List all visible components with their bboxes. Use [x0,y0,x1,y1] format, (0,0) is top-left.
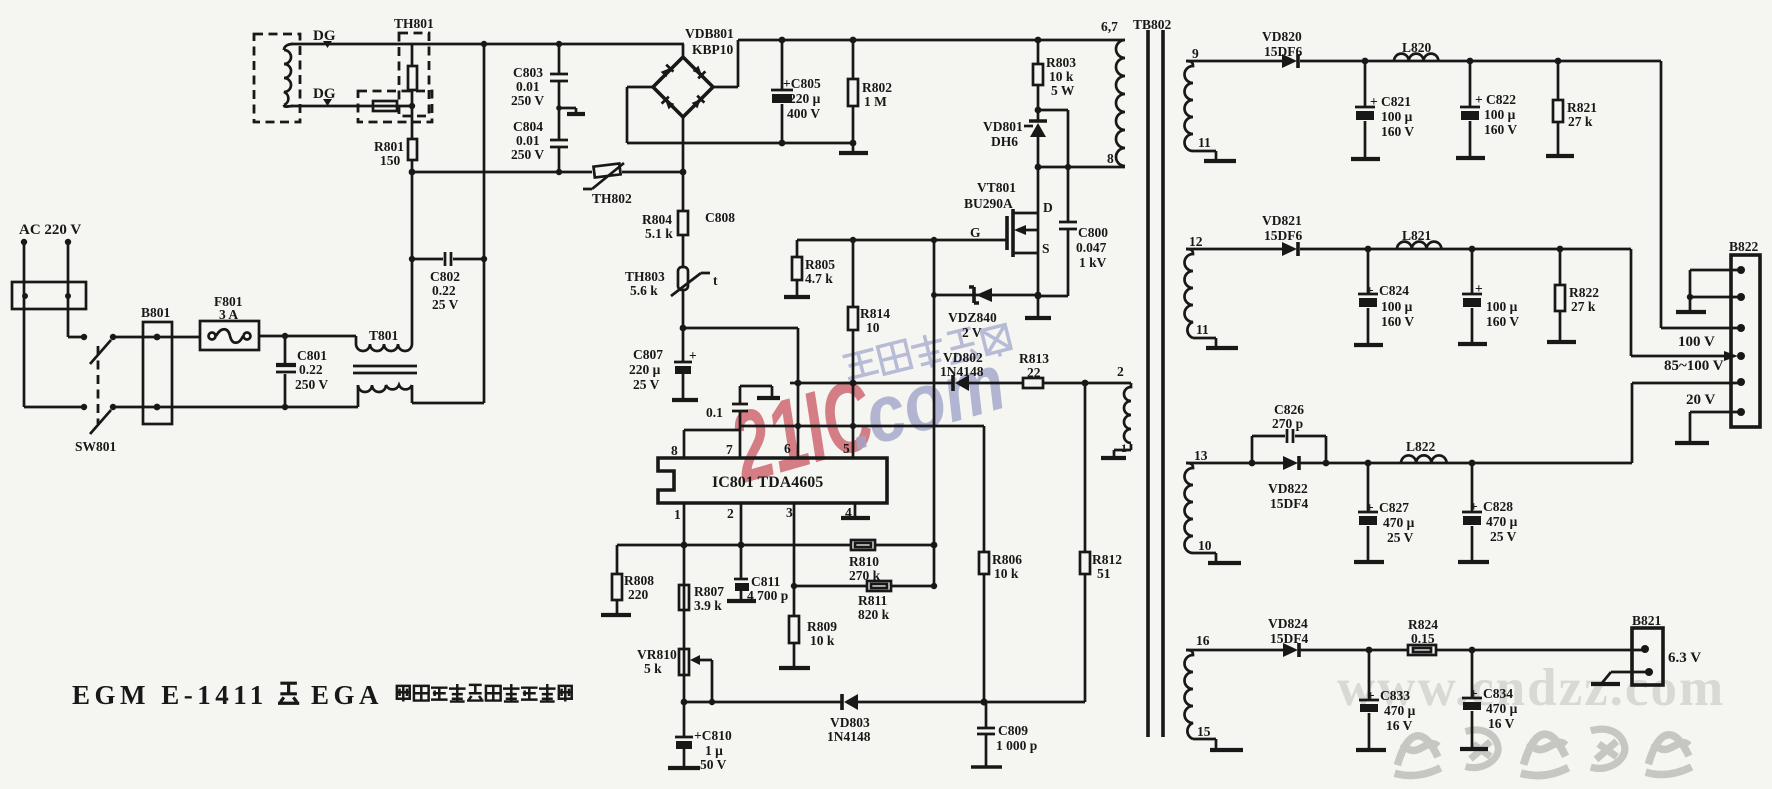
diode VD821 15DF6 [1262,213,1302,256]
svg-text:470 μ: 470 μ [1384,703,1416,718]
svg-text:+: + [1475,281,1483,296]
op-amp IC801 TDA4605 box [658,458,887,503]
svg-text:VDZ840: VDZ840 [948,310,997,325]
fuse F801 3A [200,294,259,350]
diode VD824 15DF4 [1268,616,1308,657]
svg-text:R803: R803 [1046,55,1076,70]
svg-text:R822: R822 [1569,285,1599,300]
svg-text:1 000 p: 1 000 p [996,738,1037,753]
capacitor C811 4700p [727,574,788,603]
svg-text:SW801: SW801 [75,439,117,454]
svg-text:+: + [1475,92,1483,107]
winding TB802 sec 9-11 [1185,46,1237,161]
svg-text:160 V: 160 V [1381,314,1414,329]
svg-text:C826: C826 [1274,402,1304,417]
resistor R801 150 [374,139,417,168]
svg-text:B801: B801 [141,305,171,320]
resistor R814 10 [848,240,890,458]
diode VD803 1N4148 [827,694,871,744]
svg-text:C801: C801 [297,348,327,363]
svg-text:22: 22 [1027,365,1041,380]
resistor R805 4.7k [784,240,835,297]
svg-text:3 A: 3 A [219,307,238,322]
resistor R822 27k [1547,249,1599,342]
thermistor TH803 5.6k [625,267,718,298]
resistor R804 5.1k [642,211,688,241]
svg-text:C802: C802 [430,269,460,284]
svg-text:R805: R805 [805,257,835,272]
svg-text:16 V: 16 V [1488,716,1515,731]
wire Vcc branch to pin6 [683,328,798,383]
svg-text:220: 220 [628,587,649,602]
svg-text:2: 2 [727,506,734,521]
capacitor C809 1000p [971,702,1037,767]
capacitor C801 [276,336,328,407]
svg-text:B821: B821 [1632,613,1662,628]
svg-text:15DF4: 15DF4 [1270,631,1308,646]
resistor R810 270k [849,540,881,583]
wire B822 pin4 arrow 85-100V [1724,351,1738,361]
svg-text:4.7 k: 4.7 k [805,271,833,286]
svg-text:220 μ: 220 μ [789,91,821,106]
svg-text:R824: R824 [1408,617,1438,632]
svg-text:3: 3 [786,505,793,520]
capacitor C833 470u 16V [1356,650,1416,750]
svg-text:0.047: 0.047 [1076,240,1107,255]
connector B801 [141,305,172,424]
svg-text:5 W: 5 W [1051,83,1075,98]
svg-text:5.1 k: 5.1 k [645,226,673,241]
capacitor C805 220u 400V [771,40,821,143]
svg-text:t: t [713,273,718,288]
svg-text:0.01: 0.01 [516,133,540,148]
svg-text:C822: C822 [1486,92,1516,107]
svg-text:10 k: 10 k [810,633,835,648]
svg-text:L822: L822 [1406,439,1436,454]
svg-text:5: 5 [843,441,850,456]
svg-text:BU290A: BU290A [964,196,1013,211]
svg-text:+: + [1370,94,1378,109]
svg-text:R821: R821 [1567,100,1597,115]
wire pin7 to R806 top [740,425,984,428]
svg-text:TH802: TH802 [592,191,632,206]
degaussing coil dashed box [254,34,300,122]
wire center column [682,172,685,328]
resistor R821 27k [1546,61,1597,156]
capacitor C800 0.047 1kV [1059,222,1108,270]
wire AC live down [23,242,26,407]
svg-text:KBP10: KBP10 [692,42,734,57]
svg-text:50 V: 50 V [700,757,727,772]
zener diode VDZ840 2V [934,287,1038,340]
svg-text:10: 10 [1198,538,1212,553]
svg-text:250 V: 250 V [511,93,544,108]
capacitor 100u 160V (C825) [1458,249,1519,344]
svg-text:C803: C803 [513,65,543,80]
wire bridge plus to rail [713,40,738,87]
wire fuse to T801 [259,336,356,344]
svg-text:160 V: 160 V [1484,122,1517,137]
thermistor TH801 dashed box [394,16,434,116]
svg-text:R813: R813 [1019,351,1049,366]
svg-text:C824: C824 [1379,283,1409,298]
svg-text:4 700 p: 4 700 p [747,588,788,603]
capacitor C810 1u 50V [668,702,732,772]
wire bottom feedback rail [684,701,1085,704]
svg-text:C804: C804 [513,119,543,134]
watermark bottom-right calligraphy [1395,729,1692,775]
wire snubber [1038,110,1125,296]
resistor R807 3.9k [679,584,724,613]
ground bridge minus [852,143,855,152]
capacitor 0.1 on pin7 [706,404,748,420]
capacitor C804 0.01 250V [511,119,568,172]
svg-text:C821: C821 [1381,94,1411,109]
svg-text:IC801 TDA4605: IC801 TDA4605 [712,474,823,491]
svg-text:3.9 k: 3.9 k [694,598,722,613]
resistor R803 10k 5W [1033,40,1076,120]
svg-text:9: 9 [1192,46,1199,61]
svg-text:250 V: 250 V [295,377,328,392]
svg-text:C809: C809 [998,723,1028,738]
svg-text:C827: C827 [1379,500,1409,515]
svg-text:15DF4: 15DF4 [1270,496,1308,511]
svg-text:R814: R814 [860,306,890,321]
svg-text:DH6: DH6 [991,134,1018,149]
svg-text:5.6 k: 5.6 k [630,283,658,298]
svg-text:270 p: 270 p [1272,416,1303,431]
svg-text:13: 13 [1194,448,1208,463]
svg-text:VD821: VD821 [1262,213,1302,228]
svg-text:+: + [1470,686,1478,701]
resistor R811 820k [794,581,934,622]
transistor VT801 BU290A mosfet [964,180,1053,257]
svg-text:2 V: 2 V [962,325,982,340]
svg-text:1N4148: 1N4148 [940,364,984,379]
svg-text:11: 11 [1198,135,1211,150]
wire DC plus top rail [738,39,1125,42]
ground source [1037,296,1040,317]
svg-text:8: 8 [1107,151,1114,166]
winding TB802 primary 6,7-8 [1116,40,1125,166]
svg-text:51: 51 [1097,566,1111,581]
svg-text:470 μ: 470 μ [1383,515,1415,530]
wire AC neutral down [67,242,70,337]
svg-text:0.22: 0.22 [432,283,456,298]
potentiometer VR810 5k [637,647,712,702]
wire B822 pin5 20V [1632,382,1741,385]
wire bridge bottom to AC mid [682,117,685,172]
ground pin7 branch [740,386,772,397]
wire output rail 2 [1186,249,1724,356]
svg-text:1: 1 [674,507,681,522]
svg-text:250 V: 250 V [511,147,544,162]
svg-text:R801: R801 [374,139,404,154]
diode VD801 DH6 [983,119,1047,296]
svg-text:EGA: EGA [311,680,383,710]
svg-text:25 V: 25 V [1387,530,1414,545]
svg-text:16: 16 [1196,633,1210,648]
svg-text:C811: C811 [751,574,781,589]
wire B822 pin6 ground [1690,412,1741,442]
svg-text:0.22: 0.22 [299,362,323,377]
svg-text:TH803: TH803 [625,269,665,284]
svg-text:5 k: 5 k [644,661,662,676]
svg-text:6: 6 [784,441,791,456]
svg-text:VD820: VD820 [1262,29,1302,44]
wire output rail 3 [1186,383,1632,463]
inductor L822 [1401,439,1447,463]
svg-text:R811: R811 [858,593,888,608]
diode VD820 15DF6 [1262,29,1302,68]
capacitor C826 270p bypass loop [1252,402,1326,463]
svg-text:S: S [1042,241,1050,256]
svg-text:VD803: VD803 [830,715,870,730]
svg-text:10 k: 10 k [994,566,1019,581]
capacitor C828 470u 25V [1458,463,1518,562]
svg-text:160 V: 160 V [1486,314,1519,329]
capacitor C827 470u 25V [1354,463,1415,562]
wire gate rail [797,239,1007,242]
svg-text:+: + [1366,283,1374,298]
resistor R809 10k [779,616,837,668]
svg-text:1N4148: 1N4148 [827,729,871,744]
diode VD802 1N4148 [940,350,984,391]
svg-text:25 V: 25 V [1490,529,1517,544]
svg-text:820 k: 820 k [858,607,890,622]
svg-text:7: 7 [726,442,733,457]
svg-text:100 μ: 100 μ [1381,299,1413,314]
svg-text:R806: R806 [992,552,1022,567]
diode VD822 15DF4 [1268,456,1308,511]
inductor L821 [1397,228,1441,249]
svg-text:1 kV: 1 kV [1079,255,1107,270]
svg-text:D: D [1043,200,1053,215]
wire TH801 vertical [411,44,414,139]
svg-text:6,7: 6,7 [1101,19,1118,34]
inductor L820 [1394,40,1438,61]
wire bottom rail to T801 [143,406,358,409]
svg-text:C833: C833 [1380,688,1410,703]
svg-text:1 M: 1 M [864,94,887,109]
ground C803/C804 mid [559,108,576,113]
svg-text:C808: C808 [705,210,735,225]
svg-text:R807: R807 [694,584,724,599]
svg-text:10: 10 [866,320,880,335]
svg-text:8: 8 [671,443,678,458]
svg-text:160 V: 160 V [1381,124,1414,139]
svg-text:6.3 V: 6.3 V [1668,650,1701,666]
capacitor C834 470u 16V [1460,650,1518,749]
svg-text:C834: C834 [1483,686,1513,701]
resistor R806 10k [979,426,1022,702]
capacitor C824 100u 160V [1354,249,1414,345]
svg-text:100 μ: 100 μ [1486,299,1518,314]
svg-text:25 V: 25 V [432,297,459,312]
svg-text:R802: R802 [862,80,892,95]
svg-text:VR810: VR810 [637,647,677,662]
svg-text:16 V: 16 V [1386,718,1413,733]
resistor in dashed box (DG loop) [358,91,432,122]
svg-text:R810: R810 [849,554,879,569]
wire DG lower [291,105,412,108]
svg-text:100 μ: 100 μ [1381,109,1413,124]
connector plug box [12,282,86,309]
svg-text:AC 220 V: AC 220 V [19,222,81,238]
winding TB802 sec 16-15 [1185,633,1244,750]
resistor R808 220 [601,545,654,615]
svg-text:470 μ: 470 μ [1486,514,1518,529]
resistor R813 22 [1019,351,1049,388]
svg-text:VD801: VD801 [983,119,1023,134]
svg-text:1: 1 [1121,441,1127,455]
winding TB802 sec 12-11 [1185,234,1239,348]
svg-text:150: 150 [380,153,401,168]
svg-text:TH801: TH801 [394,16,434,31]
winding TB802 sec 13-10 [1185,448,1242,563]
svg-text:20 V: 20 V [1686,392,1715,408]
winding TB802 pin2-1 feedback [1101,364,1131,458]
svg-text:+C805: +C805 [783,76,821,91]
svg-text:VD822: VD822 [1268,481,1308,496]
wire zener node vertical [933,240,936,586]
svg-text:27 k: 27 k [1571,299,1596,314]
title EGM E-1411 EGA power supply [72,680,572,710]
transformer T801 [353,328,484,407]
svg-text:R812: R812 [1092,552,1122,567]
svg-text:100 μ: 100 μ [1484,107,1516,122]
wire output rail 4 [1186,649,1645,650]
wire B821 pin2 ground [1602,672,1649,683]
svg-text:25 V: 25 V [633,377,660,392]
resistor R812 51 [1080,383,1122,702]
svg-text:15DF6: 15DF6 [1264,228,1302,243]
svg-text:C800: C800 [1078,225,1108,240]
ground C807 [672,398,698,402]
switch SW801 [24,334,143,454]
capacitor C822 100u 160V [1456,61,1517,158]
wire feedback line VD802 [790,382,1131,385]
svg-text:+: + [1367,688,1375,703]
svg-text:1 μ: 1 μ [705,743,723,758]
capacitor C807 220u 25V [629,328,697,399]
svg-text:VDB801: VDB801 [685,26,734,41]
svg-text:R808: R808 [624,573,654,588]
wire switch to fuse [143,336,200,339]
connector B821 [1632,613,1701,685]
svg-text:R809: R809 [807,619,837,634]
bridge rectifier VDB801 KBP10 [653,26,734,117]
svg-text:2: 2 [1117,364,1124,379]
wire AC mid rail [412,171,683,174]
svg-text:TB802: TB802 [1133,17,1172,32]
resistor R824 0.15 [1408,617,1438,655]
svg-text:VD802: VD802 [943,350,983,365]
resistor R802 1M [848,40,892,143]
svg-text:G: G [970,225,981,240]
svg-text:B822: B822 [1729,239,1759,254]
svg-text:+C810: +C810 [694,728,732,743]
wire output rail 1 [1186,61,1661,328]
svg-text:EGM E-1411: EGM E-1411 [72,680,268,710]
svg-text:0.1: 0.1 [706,405,723,420]
svg-text:220 μ: 220 μ [629,362,661,377]
svg-text:T801: T801 [369,328,399,343]
svg-text:0.01: 0.01 [516,79,540,94]
core TB802 [1148,30,1163,737]
svg-text:15: 15 [1197,724,1211,739]
wire feedback divider rail [617,544,934,547]
svg-text:400 V: 400 V [787,106,820,121]
wire mains hot riser [483,44,486,403]
thermistor TH802 [583,163,632,206]
svg-text:10 k: 10 k [1049,69,1074,84]
svg-text:+: + [689,348,697,363]
capacitor C803 0.01 250V [511,44,568,139]
svg-text:R804: R804 [642,212,672,227]
svg-text:15DF6: 15DF6 [1264,44,1302,59]
svg-text:27 k: 27 k [1568,114,1593,129]
svg-text:0.15: 0.15 [1411,631,1435,646]
capacitor C821 100u 160V [1351,61,1414,159]
wire top from DG coil [291,43,684,46]
svg-text:12: 12 [1189,234,1203,249]
connector B822 [1729,239,1760,427]
svg-text:11: 11 [1196,322,1209,337]
svg-text:+: + [1366,500,1374,515]
svg-text:C807: C807 [633,347,663,362]
wire B822 pins 1-2 tie to ground [1690,270,1741,311]
wire bridge minus loop [627,87,853,143]
svg-text:+: + [1470,499,1478,514]
svg-text:470 μ: 470 μ [1486,701,1518,716]
wire pin8 to pin7 [684,429,740,432]
svg-text:100 V: 100 V [1678,334,1715,350]
watermark 21IC center [718,325,1015,505]
svg-text:VT801: VT801 [977,180,1016,195]
svg-text:85~100 V: 85~100 V [1664,358,1724,374]
wire B822 pin3 100V [1661,327,1741,330]
svg-text:VD824: VD824 [1268,616,1308,631]
capacitor C802 0.22 25V [412,252,484,312]
svg-text:C828: C828 [1483,499,1513,514]
